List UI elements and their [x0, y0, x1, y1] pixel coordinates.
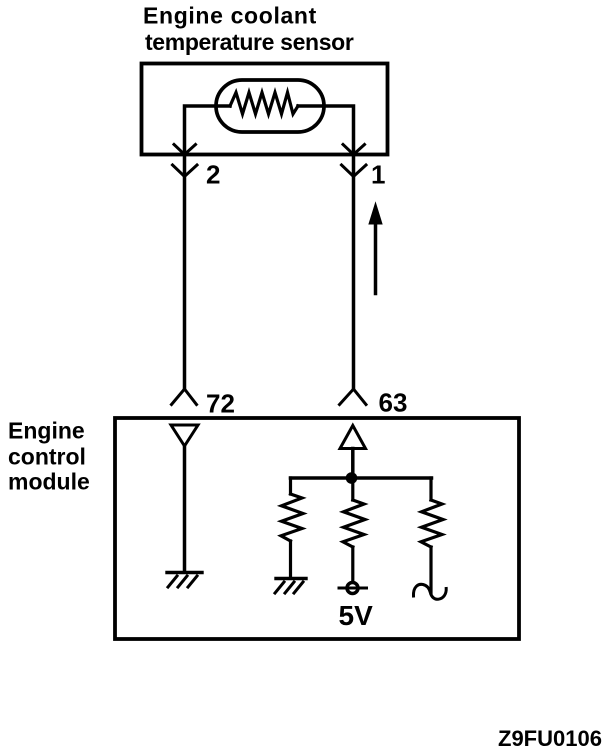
- wire: pin72 to ground: [183, 446, 187, 571]
- output buffer triangle (up, pin 63): [340, 426, 366, 449]
- svg-text:Z9FU0106: Z9FU0106: [498, 726, 602, 751]
- label: Engine control module: [8, 418, 90, 495]
- ground G2: [275, 579, 306, 594]
- resistor R-right: [421, 478, 443, 593]
- terminal fork pin 72: [172, 389, 197, 405]
- thermistor body (oval): [216, 80, 324, 132]
- svg-text:72: 72: [206, 389, 235, 419]
- svg-text:temperature sensor: temperature sensor: [145, 29, 354, 55]
- wire: sensor left lead: [185, 106, 231, 388]
- wire: triangle to node: [351, 449, 355, 479]
- bus wire: [291, 476, 432, 480]
- svg-text:5V: 5V: [339, 600, 374, 631]
- input buffer triangle (down, pin 72): [171, 425, 198, 446]
- resistor R-mid: [343, 478, 365, 582]
- sensor box: [142, 64, 388, 155]
- label: Engine coolant temperature sensor: [143, 3, 354, 56]
- ECM box: [115, 418, 519, 639]
- junction node: [346, 472, 358, 484]
- 5V terminal circle: [339, 583, 367, 594]
- connector chevron: pin 1 upper: [343, 145, 365, 155]
- svg-text:module: module: [8, 469, 90, 495]
- svg-text:control: control: [8, 444, 86, 470]
- svg-text:Engine coolant: Engine coolant: [143, 3, 317, 29]
- resistor element (zigzag): [230, 93, 298, 115]
- resistor R-left: [281, 478, 303, 577]
- svg-text:2: 2: [206, 160, 220, 190]
- current direction arrow: [369, 203, 382, 294]
- ground G1: [167, 573, 202, 588]
- squiggle terminal: [413, 584, 446, 599]
- connector chevron: pin 2 upper: [174, 145, 196, 155]
- wire: sensor right lead: [298, 106, 354, 388]
- connector chevron: pin 2 lower: [173, 165, 198, 177]
- svg-text:63: 63: [379, 388, 408, 418]
- svg-text:Engine: Engine: [8, 418, 85, 444]
- terminal fork pin 63: [340, 389, 367, 405]
- connector chevron: pin 1 lower: [342, 165, 367, 177]
- svg-text:1: 1: [371, 160, 385, 190]
